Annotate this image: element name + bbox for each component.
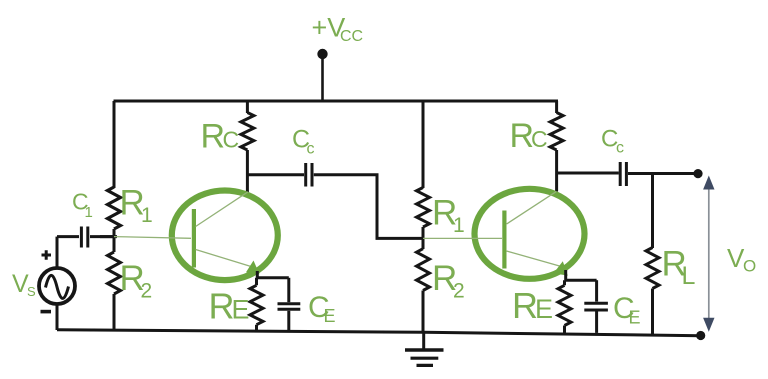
svg-text:R: R xyxy=(201,118,226,156)
svg-text:C: C xyxy=(531,126,548,152)
label VS plus xyxy=(42,250,52,260)
node output top dot xyxy=(693,169,702,178)
resistor R1 stage2 xyxy=(417,188,430,228)
svg-text:CC: CC xyxy=(340,28,363,45)
wire emitter1 xyxy=(256,271,259,278)
svg-text:c: c xyxy=(307,141,315,158)
wire RC1 to collector xyxy=(246,150,249,193)
transistor Q2 xyxy=(423,189,585,279)
svg-text:E: E xyxy=(535,294,553,324)
svg-text:C: C xyxy=(223,127,240,153)
capacitor CE stage1 xyxy=(287,278,290,302)
source VS xyxy=(56,237,59,268)
wire CC to stage2 base xyxy=(314,175,423,239)
svg-text:1: 1 xyxy=(453,214,465,237)
resistor R2 stage2 xyxy=(417,249,430,291)
resistor RC stage2 xyxy=(550,113,563,151)
capacitor CC out xyxy=(619,162,622,186)
svg-text:E: E xyxy=(324,306,336,326)
svg-text:O: O xyxy=(743,257,756,276)
resistor RE stage2 xyxy=(558,285,571,325)
node output bottom dot xyxy=(696,331,705,340)
wire R1-R2 junction (base node 1) xyxy=(113,229,116,252)
svg-text:E: E xyxy=(232,295,250,325)
svg-text:2: 2 xyxy=(141,280,153,303)
wire stage2 divider top xyxy=(422,101,425,188)
svg-text:S: S xyxy=(27,284,36,299)
wire RC1 top xyxy=(246,101,249,113)
wire R2s2 to rail xyxy=(422,291,425,333)
wire collector2 to CC out xyxy=(557,172,619,175)
svg-text:L: L xyxy=(682,262,696,290)
svg-text:E: E xyxy=(629,308,641,328)
arrow VO xyxy=(708,188,710,319)
node VCC dot xyxy=(317,49,327,59)
transistor Q1 xyxy=(114,191,278,281)
wire CC out to terminal xyxy=(628,172,695,175)
wire RC2 to collector xyxy=(555,150,558,192)
resistor RC stage1 xyxy=(241,113,254,151)
capacitor C1 xyxy=(57,235,79,238)
wire VCC stub xyxy=(321,56,324,101)
capacitor CC mid xyxy=(304,163,307,187)
resistor R2 stage1 xyxy=(108,252,121,294)
wire R2 to bottom rail xyxy=(113,294,116,331)
svg-text:2: 2 xyxy=(453,280,465,303)
wire VS bottom xyxy=(56,304,59,331)
wire base node 2 xyxy=(422,227,425,249)
svg-text:1: 1 xyxy=(141,204,153,227)
svg-text:1: 1 xyxy=(85,204,93,221)
capacitor CE stage2 xyxy=(595,280,598,301)
label VS minus xyxy=(41,310,52,314)
wire top VCC rail xyxy=(114,100,559,103)
resistor RL xyxy=(651,174,654,249)
wire RC2 top xyxy=(555,101,558,113)
wire emitter2 xyxy=(564,270,567,280)
resistor R1 stage1 xyxy=(108,187,121,229)
wire collector1 to CC xyxy=(247,173,304,176)
svg-text:c: c xyxy=(616,140,624,157)
wire bottom rail xyxy=(57,330,701,336)
wire left vertical from rail to R1 xyxy=(113,101,116,188)
ground xyxy=(422,332,425,350)
resistor RE stage1 xyxy=(250,285,263,324)
